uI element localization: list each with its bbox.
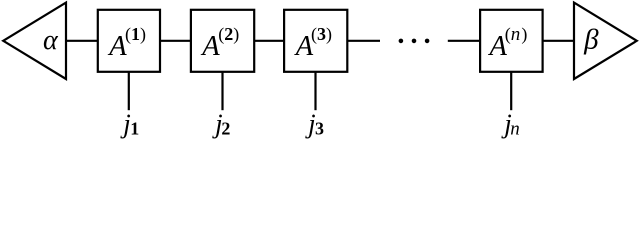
svg-text:(1): (1) bbox=[125, 24, 146, 45]
svg-text:β: β bbox=[583, 24, 599, 56]
svg-text:A: A bbox=[200, 31, 220, 62]
svg-text:2: 2 bbox=[221, 119, 230, 139]
svg-text:n: n bbox=[510, 119, 520, 140]
svg-text:(3): (3) bbox=[311, 24, 332, 45]
svg-text:1: 1 bbox=[130, 119, 139, 139]
svg-text:(n): (n) bbox=[505, 24, 528, 45]
svg-text:α: α bbox=[43, 25, 59, 56]
svg-text:3: 3 bbox=[315, 119, 324, 139]
svg-text:(2): (2) bbox=[218, 24, 239, 45]
